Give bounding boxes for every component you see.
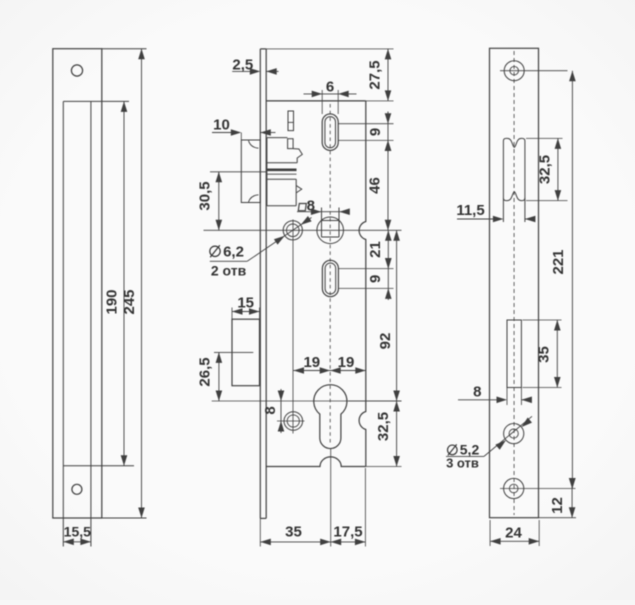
svg-text:32,5: 32,5	[375, 412, 392, 441]
svg-text:26,5: 26,5	[197, 357, 214, 386]
svg-text:24: 24	[505, 525, 522, 542]
svg-text:19: 19	[303, 354, 320, 371]
svg-text:9: 9	[367, 128, 384, 136]
svg-text:27,5: 27,5	[367, 60, 384, 89]
svg-text:21: 21	[367, 241, 384, 258]
svg-text:2 отв: 2 отв	[211, 263, 247, 279]
svg-text:30,5: 30,5	[196, 181, 213, 210]
svg-text:92: 92	[377, 333, 394, 350]
svg-text:46: 46	[367, 177, 384, 194]
svg-text:12: 12	[549, 497, 566, 514]
svg-text:17,5: 17,5	[333, 524, 362, 541]
svg-text:8: 8	[473, 384, 481, 401]
svg-text:9: 9	[367, 275, 384, 283]
svg-text:8: 8	[262, 406, 279, 414]
svg-text:15,5: 15,5	[64, 524, 91, 540]
svg-text:3 отв: 3 отв	[446, 456, 479, 471]
svg-text:190: 190	[104, 289, 121, 314]
svg-text:32,5: 32,5	[537, 155, 554, 184]
svg-text:245: 245	[121, 289, 138, 314]
svg-text:6: 6	[326, 79, 334, 96]
svg-text:11,5: 11,5	[456, 202, 484, 219]
svg-text:221: 221	[550, 249, 567, 274]
svg-text:6,2: 6,2	[223, 244, 244, 261]
svg-text:10: 10	[213, 117, 230, 134]
svg-text:15: 15	[237, 295, 254, 312]
svg-text:35: 35	[285, 524, 302, 541]
svg-text:35: 35	[536, 346, 553, 363]
